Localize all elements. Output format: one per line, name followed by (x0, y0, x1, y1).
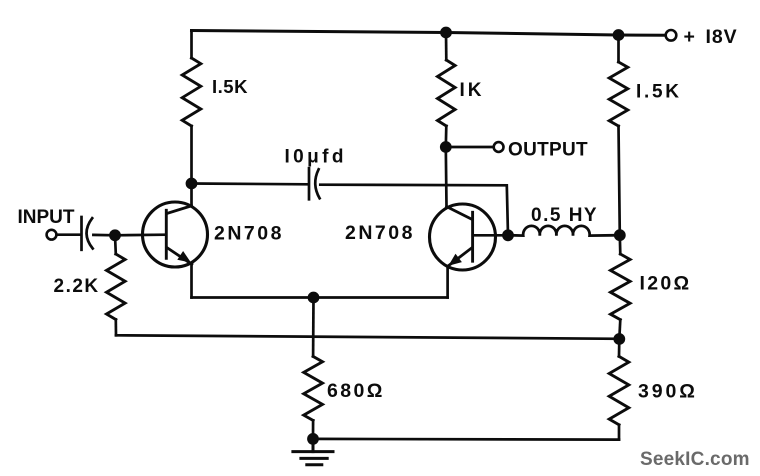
svg-text:2N708: 2N708 (345, 222, 415, 244)
transistor Q1 emitter line (167, 248, 192, 265)
svg-text:SeekIC.com: SeekIC.com (640, 449, 750, 470)
transistor Q2 emitter line (447, 248, 471, 266)
transistor Q1 2N708 circle (143, 202, 208, 267)
wire 390ohm top lead (618, 339, 621, 356)
wire Q1 emitter down (190, 263, 193, 297)
svg-text:390Ω: 390Ω (638, 380, 698, 402)
wire common emitter horizontal (192, 296, 448, 299)
transistor Q1 emitter arrow (177, 251, 191, 263)
inductor L 0.5 HY (508, 226, 620, 236)
transistor Q2 collector line (447, 207, 472, 220)
node 680ohm / ground (307, 433, 319, 445)
wire 120ohm top lead (618, 235, 621, 254)
wire 390ohm bottom lead (618, 425, 621, 440)
resistor 120 ohm (611, 254, 631, 320)
terminal +18V (666, 30, 677, 41)
capacitor input coupling (82, 217, 93, 250)
wire 1.5K bottom to Q1 collector (190, 126, 193, 206)
svg-text:680Ω: 680Ω (327, 380, 385, 402)
wire 2.2K bottom lead and corner (114, 320, 117, 336)
transistor Q2 base bar (471, 212, 474, 261)
terminal OUTPUT (494, 142, 504, 152)
transistor Q1 collector line (167, 206, 192, 214)
node top rail / right 1.5K (613, 29, 625, 41)
ground (293, 439, 333, 465)
node emitter / 680ohm (308, 292, 320, 304)
node inductor / 1.5K / 120ohm (614, 229, 626, 241)
transistor Q1 base bar (165, 210, 168, 258)
terminal INPUT (47, 230, 57, 240)
wire Q2 emitter down (446, 266, 449, 297)
wire feedback 2.2K bottom to 120/390 junction (116, 335, 619, 339)
wire input terminal to cap (57, 233, 81, 236)
transistor Q2 2N708 circle (430, 204, 496, 270)
wire 680ohm top lead from emitter node (312, 298, 315, 357)
wire right 1.5K top lead (617, 35, 620, 62)
wire 120ohm bottom lead (619, 320, 620, 339)
svg-text:2.2K: 2.2K (54, 276, 100, 297)
wire output node to output terminal (446, 146, 494, 149)
resistor 680 ohm (304, 356, 323, 420)
resistor 1K (438, 60, 456, 126)
wire left vertical to R 1.5K (190, 31, 193, 59)
svg-text:+: + (684, 26, 695, 48)
svg-text:INPUT: INPUT (18, 207, 75, 228)
node input / base / 2.2K (109, 229, 121, 241)
wire Q2 collector to output node (444, 147, 447, 207)
wire Q1 collector node to 10ufd cap (192, 182, 308, 186)
node top rail / 1K (440, 27, 452, 39)
svg-text:OUTPUT: OUTPUT (508, 139, 588, 160)
resistor 2.2K (107, 254, 126, 320)
node output junction (440, 141, 452, 153)
wire Q2 base to node (473, 234, 508, 237)
transistor Q2 emitter arrow (448, 254, 462, 266)
wire right 1.5K bottom lead to inductor node (619, 126, 620, 235)
node Q2 base / cap / inductor (502, 229, 514, 241)
resistor 1.5K (right) (609, 62, 628, 126)
svg-text:I0μfd: I0μfd (285, 147, 347, 168)
wire 1K bottom lead (444, 126, 447, 147)
wire 1K top lead (445, 33, 448, 61)
wire bottom ground return (313, 438, 619, 441)
svg-text:I8V: I8V (706, 26, 738, 48)
resistor 1.5K (left) (182, 58, 201, 126)
wire base node to Q1 base (115, 233, 165, 236)
resistor 390 ohm (609, 356, 629, 424)
svg-text:2N708: 2N708 (214, 223, 284, 245)
wire 10ufd cap to Q2 base node (320, 185, 508, 236)
wire top supply rail (192, 31, 666, 36)
wire 2.2K top lead (114, 235, 118, 254)
svg-text:IK: IK (460, 80, 485, 101)
svg-text:I.5K: I.5K (636, 82, 682, 103)
svg-text:I20Ω: I20Ω (640, 273, 692, 295)
wire cap to Q1 base node (93, 234, 115, 237)
node Q1 collector / cap (186, 178, 198, 190)
svg-text:I.5K: I.5K (212, 76, 248, 97)
wire 680ohm bottom lead (312, 420, 315, 439)
capacitor C 10ufd (309, 168, 320, 199)
svg-text:0.5 HY: 0.5 HY (531, 205, 598, 226)
node 120/390 junction (613, 333, 625, 345)
